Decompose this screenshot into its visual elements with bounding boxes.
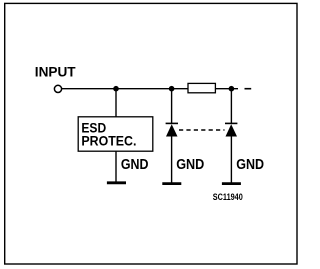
wire resistor to node C stub: [216, 88, 239, 90]
wire node B to diode D1: [171, 89, 173, 124]
node B junction dot: [169, 86, 175, 92]
svg-text:SC11940: SC11940: [213, 192, 243, 202]
svg-text:INPUT: INPUT: [35, 64, 77, 79]
wire ESD box to ground: [115, 151, 117, 181]
wire input terminal to resistor: [62, 88, 188, 90]
svg-text:PROTEC.: PROTEC.: [81, 134, 136, 150]
diode D1: [166, 123, 178, 136]
ground (ESD block): [107, 181, 126, 184]
node A junction dot: [113, 86, 119, 92]
node C junction dot: [229, 86, 235, 92]
ground (D1): [162, 182, 181, 185]
svg-text:GND: GND: [236, 157, 264, 173]
diode D2: [225, 123, 237, 136]
wire diode D2 to ground: [230, 136, 232, 183]
dashed net between D1 and D2: [179, 129, 225, 131]
ESD protection block U1: [78, 117, 153, 151]
wire diode D1 to ground: [171, 136, 173, 183]
wire node C to diode D2: [230, 89, 232, 124]
ground (D2): [222, 182, 241, 185]
svg-text:GND: GND: [176, 157, 204, 173]
wire dashed continuation: [245, 88, 252, 90]
svg-text:GND: GND: [121, 157, 149, 173]
resistor R1: [188, 83, 215, 92]
wire node A to ESD box: [115, 89, 117, 117]
input terminal: [54, 85, 61, 92]
